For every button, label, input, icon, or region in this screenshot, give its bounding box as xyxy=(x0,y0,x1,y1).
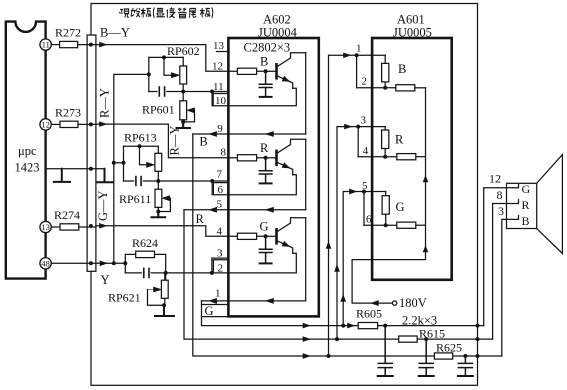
svg-text:JU0005: JU0005 xyxy=(393,26,432,40)
node Y riser at Y row xyxy=(112,261,116,265)
arrow line B xyxy=(303,337,310,342)
CRT R cathode wire xyxy=(493,200,519,339)
svg-text:2: 2 xyxy=(218,262,224,274)
svg-text:13: 13 xyxy=(41,223,49,232)
node A601 pin1 xyxy=(355,53,359,57)
svg-text:C2802×3: C2802×3 xyxy=(244,41,291,55)
wire junction to A602 pin7 xyxy=(158,180,228,182)
Q1 emitter drop and wrap to pin10 xyxy=(228,88,296,106)
svg-text:1: 1 xyxy=(215,288,221,300)
wire pin48 to bus Y row xyxy=(51,262,96,264)
wire R625 to CRT B wire xyxy=(453,355,502,357)
node G cell res bottom xyxy=(384,223,388,227)
wire R h-res to rail xyxy=(416,156,426,158)
pin 6 label box xyxy=(213,183,228,197)
riser line A to A601 pin5 xyxy=(343,192,386,326)
R624 loop left vertical xyxy=(124,254,126,273)
node bus Y xyxy=(89,261,93,265)
wire G h-res to rail xyxy=(416,224,426,226)
svg-text:3: 3 xyxy=(361,115,367,127)
svg-text:3: 3 xyxy=(217,248,223,260)
wire R605 to CRT G wire xyxy=(378,325,484,327)
wire pin13 to R274 xyxy=(51,226,60,228)
arrow pin1 wire xyxy=(209,298,216,303)
arrow pin3 wire A601 xyxy=(345,124,352,129)
svg-text:R273: R273 xyxy=(55,106,81,120)
pin6 drop and stub xyxy=(212,181,228,195)
capacitor Q1 base xyxy=(259,71,272,96)
RP601 wiper arrow xyxy=(187,108,195,113)
node RP621 bottom junction xyxy=(162,303,166,307)
potentiometer RP621 body xyxy=(161,273,168,306)
edge connector bus bar xyxy=(87,35,96,271)
RP601 stem top xyxy=(182,92,184,101)
180V rail inside A601 xyxy=(352,88,425,303)
A601 pin 2 drop xyxy=(356,55,358,88)
node cap1 xyxy=(383,324,387,328)
hybrid IC A601 box xyxy=(372,38,452,280)
capacitor C (R624 parallel) plates xyxy=(144,268,149,277)
resistor R615 xyxy=(399,336,418,342)
RP613 wiper arrow xyxy=(147,162,155,167)
capacitor Q3 base xyxy=(259,236,272,263)
RP611 stem top xyxy=(157,181,159,189)
svg-text:G—Y: G—Y xyxy=(96,190,110,221)
node RP611 bottom junction xyxy=(156,210,160,214)
node bus gnd xyxy=(89,167,93,171)
arrow pin5 wire A601 xyxy=(350,189,357,194)
RP601 wiper arm xyxy=(183,110,194,122)
capacitor Q2 base xyxy=(259,158,272,183)
svg-text:R615: R615 xyxy=(419,327,445,341)
potentiometer RP613 body xyxy=(155,146,162,181)
capacitor line B xyxy=(419,339,433,375)
pin 48 circle xyxy=(40,258,51,269)
arrow up riser pin3 xyxy=(335,265,340,271)
node R624 net output xyxy=(164,271,168,275)
RP601 bottom stem xyxy=(182,120,184,123)
pin10 drop and stub xyxy=(212,92,228,106)
svg-text:R274: R274 xyxy=(54,208,80,222)
svg-text:μpc: μpc xyxy=(18,144,37,158)
node A601 pin3 xyxy=(356,125,360,129)
RP602 top wire xyxy=(149,56,183,58)
arrow line C xyxy=(303,354,310,359)
svg-text:Y: Y xyxy=(101,273,110,287)
A601 pin4 row xyxy=(358,156,397,158)
transistor Q2 (R) base resistor xyxy=(228,155,265,161)
RP602 wiper arm xyxy=(164,57,171,75)
node Y riser to RP613 stub xyxy=(112,161,116,165)
CRT socket box xyxy=(507,183,537,228)
wire Y row to R624 net xyxy=(96,262,125,264)
CRT B cathode wire xyxy=(502,216,519,356)
svg-text:1: 1 xyxy=(356,43,362,55)
svg-text:G: G xyxy=(260,220,269,234)
A601 pin6 row xyxy=(364,224,397,226)
A601 B cell v-resistor xyxy=(382,55,389,88)
arrow pin5 wire xyxy=(209,207,216,212)
resistor R605 xyxy=(358,323,377,329)
CRT funnel xyxy=(537,155,563,254)
arrow R-Y row xyxy=(100,122,107,127)
Q3 collector drop to pin1 row xyxy=(305,218,307,301)
svg-text:RP602: RP602 xyxy=(167,44,200,58)
ground cap1 xyxy=(378,375,393,377)
RP621 wiper arrow xyxy=(148,287,162,292)
node riser/line B xyxy=(335,337,339,341)
board title 视放板(显像管尾板) (CJK approximated strokes) xyxy=(119,8,213,19)
node riser/line C xyxy=(327,354,331,358)
wire B h-res to rail xyxy=(415,87,426,89)
node RP602/RP601 junction xyxy=(181,90,185,94)
node cap3 xyxy=(463,354,467,358)
pin 5 output wire xyxy=(184,209,228,211)
arrow pin9 wire xyxy=(209,132,216,137)
svg-text:8: 8 xyxy=(497,188,503,202)
svg-text:8: 8 xyxy=(221,147,227,159)
IC ground line to bus xyxy=(46,168,105,170)
pin 1 output wire xyxy=(202,300,229,302)
pin 9 output wire xyxy=(193,133,229,135)
ground Q3 cap xyxy=(260,262,272,264)
ground Q1 cap xyxy=(260,96,272,98)
svg-text:6: 6 xyxy=(218,184,224,196)
RP602 net left vertical + node xyxy=(148,57,150,91)
resistor R274 xyxy=(60,224,79,230)
ground RP601 xyxy=(177,123,191,128)
arrow up rail 2 xyxy=(423,246,428,252)
board outline 视放板 xyxy=(91,4,478,386)
resistor R624 xyxy=(136,251,155,257)
svg-text:12: 12 xyxy=(212,61,223,73)
node line A border xyxy=(476,324,480,328)
svg-text:180V: 180V xyxy=(399,296,427,310)
svg-text:4: 4 xyxy=(363,145,369,157)
ground (left of bus) xyxy=(54,169,70,182)
transistor Q1 (B) base resistor xyxy=(228,68,265,74)
svg-text:B: B xyxy=(398,62,406,76)
ground RP611 xyxy=(152,213,166,218)
wire R272 to bus xyxy=(78,44,96,46)
node Y row to R624 xyxy=(123,261,127,265)
ch3 output riser (G drive) xyxy=(202,301,359,326)
ground RP621 xyxy=(155,305,174,316)
RP611 wiper arrow xyxy=(162,196,170,201)
pin 10 label box xyxy=(213,94,228,108)
CRT G cathode wire xyxy=(484,184,519,325)
node RP613 wiper tie xyxy=(138,144,142,148)
svg-text:A602: A602 xyxy=(263,13,291,27)
R624 top branch xyxy=(125,253,165,255)
RP602 bottom wire with capacitor xyxy=(149,91,183,93)
IC U1 μpc1423 outline xyxy=(6,22,46,279)
transistor Q1 (B) xyxy=(266,53,306,89)
svg-text:R: R xyxy=(395,133,404,147)
svg-text:1423: 1423 xyxy=(15,161,40,175)
svg-text:7: 7 xyxy=(217,169,223,181)
arrow B-Y row xyxy=(100,42,107,47)
node RP602 wiper tie xyxy=(162,55,166,59)
node line B border xyxy=(476,337,480,341)
svg-text:R272: R272 xyxy=(55,26,81,40)
RP611 wiper arm xyxy=(158,198,170,211)
pin 13 circle xyxy=(40,221,51,232)
resistor R273 xyxy=(60,121,78,127)
svg-text:4: 4 xyxy=(217,226,223,238)
arrow pin9 inside xyxy=(266,132,274,137)
label G box (pin1 output) xyxy=(202,304,229,318)
node bus B-Y xyxy=(89,43,93,47)
pin 2 label box xyxy=(213,260,228,275)
svg-text:6: 6 xyxy=(366,214,372,226)
svg-text:RP611: RP611 xyxy=(119,192,151,206)
ground cap2 xyxy=(419,375,434,377)
arrow G-Y row xyxy=(100,223,107,228)
wire R273 to bus xyxy=(78,123,96,125)
svg-text:RP613: RP613 xyxy=(124,131,157,145)
potentiometer RP611 body xyxy=(155,189,162,207)
wire riser stub to RP613 xyxy=(114,162,124,164)
svg-text:G: G xyxy=(205,304,214,318)
Y riser (x=113.8) xyxy=(114,74,149,263)
node bus R-Y xyxy=(89,122,93,126)
riser line B to A601 pin3 xyxy=(337,127,385,340)
wire R274 to bus xyxy=(79,226,96,228)
wire junction to A602 pin11 xyxy=(183,91,228,93)
ground Q2 cap xyxy=(260,182,272,184)
wire R624 net to A602 pin2 row xyxy=(166,272,229,274)
RP602 wiper arrow xyxy=(171,73,179,78)
A601 B cell h-resistor xyxy=(396,85,415,91)
capacitor C (RP613 series) plates xyxy=(136,177,141,186)
RP621 wiper arm xyxy=(148,290,164,306)
wire R-Y row to pin8 drop xyxy=(96,124,229,158)
RP613 top wire xyxy=(124,145,159,147)
pin 5 row inside xyxy=(228,209,305,211)
A601 pin2 row xyxy=(357,87,396,89)
svg-text:2: 2 xyxy=(362,76,368,88)
terminal 180V xyxy=(392,301,396,305)
RP613 net left vertical xyxy=(123,146,125,181)
node A601 pin5 xyxy=(362,190,366,194)
arrow pin1 wire A601 xyxy=(344,53,351,58)
svg-text:9: 9 xyxy=(217,123,223,135)
svg-text:RP621: RP621 xyxy=(108,291,141,305)
svg-text:A601: A601 xyxy=(397,13,425,27)
wire pin11 to R272 xyxy=(51,44,59,46)
svg-text:B: B xyxy=(522,214,530,228)
RP613 bottom wire with capacitor xyxy=(124,180,159,182)
svg-text:10: 10 xyxy=(215,95,227,107)
node RP613/RP611 junction xyxy=(156,179,160,183)
A601 pin 4 drop xyxy=(357,127,359,157)
arrow up riser pin5 xyxy=(341,295,346,301)
node cap2 xyxy=(424,337,428,341)
svg-text:R624: R624 xyxy=(132,236,158,250)
node Q3 base xyxy=(264,234,268,238)
svg-text:11: 11 xyxy=(213,81,224,93)
node pin3/pin2 tie xyxy=(210,271,214,275)
resistor R272 xyxy=(60,41,78,47)
transistor Q2 (R) xyxy=(266,139,306,175)
wire R615 to CRT R wire xyxy=(417,338,492,340)
node R cell res bottom xyxy=(383,155,387,159)
A601 G cell v-resistor xyxy=(382,192,389,226)
svg-text:B: B xyxy=(260,55,268,69)
A601 R cell v-resistor xyxy=(382,127,389,157)
ground (right of bus) xyxy=(97,169,113,183)
R624 loop right vertical xyxy=(165,254,167,280)
arrow pin5 inside xyxy=(266,207,274,212)
svg-text:JU0004: JU0004 xyxy=(258,26,298,40)
pin 13 stub xyxy=(217,51,229,53)
hybrid IC A602 box xyxy=(228,38,318,316)
transistor Q3 (G) xyxy=(266,218,306,254)
node RP601 bottom junction xyxy=(181,120,185,124)
potentiometer RP601 body xyxy=(180,101,187,120)
svg-text:5: 5 xyxy=(217,199,223,211)
svg-text:B—Y: B—Y xyxy=(100,26,130,40)
svg-text:R: R xyxy=(522,198,530,212)
svg-text:13: 13 xyxy=(213,40,225,52)
svg-text:3: 3 xyxy=(498,204,504,218)
pin 9 row inside xyxy=(228,133,305,135)
node line C border xyxy=(476,354,480,358)
pin 1 row inside xyxy=(228,300,305,302)
RP611 bottom stem xyxy=(157,207,159,212)
svg-text:12: 12 xyxy=(41,121,49,130)
svg-text:G: G xyxy=(396,200,405,214)
svg-text:48: 48 xyxy=(41,259,49,268)
svg-text:G: G xyxy=(522,182,531,196)
node Q2 base xyxy=(264,156,268,160)
svg-text:R605: R605 xyxy=(356,307,382,321)
capacitor line A xyxy=(378,326,392,376)
wire B-Y row to A602 pin12 drop xyxy=(96,45,229,72)
ground cap3 xyxy=(458,375,473,377)
riser line C to A601 pin1 xyxy=(329,55,386,356)
svg-text:R—Y: R—Y xyxy=(168,126,182,156)
ch1 output riser (B drive) xyxy=(193,134,435,356)
A601 G cell h-resistor xyxy=(397,222,416,228)
R624 bottom branch with capacitor xyxy=(125,272,165,274)
svg-text:RP601: RP601 xyxy=(142,103,175,117)
potentiometer RP602 body xyxy=(180,57,187,91)
node bus G-Y xyxy=(89,224,93,228)
Q1 collector drop to pin9 row xyxy=(305,53,307,134)
wire pin12 to R273 xyxy=(51,123,60,125)
svg-text:2.2k×3: 2.2k×3 xyxy=(402,314,437,328)
RP613 wiper arm xyxy=(140,146,147,165)
pin3 rise and stub xyxy=(212,258,229,273)
pin 11 circle xyxy=(40,39,51,50)
svg-text:R: R xyxy=(196,212,205,226)
arrow up rail 1 xyxy=(423,176,428,182)
Q2 emitter drop and wrap to pin6 xyxy=(228,175,296,195)
arrow line A after node xyxy=(348,323,355,328)
arrow Y row xyxy=(100,261,107,266)
node B cell res bottom xyxy=(383,86,387,90)
transistor Q3 (G) base resistor xyxy=(228,233,265,239)
ch2 output riser (R drive) xyxy=(184,210,398,339)
pin 12 circle xyxy=(40,119,51,130)
arrow pin1 inside xyxy=(266,298,274,303)
svg-text:R: R xyxy=(260,141,269,155)
node Q1 base xyxy=(264,69,268,73)
node pin7/pin6 tie xyxy=(210,179,214,183)
resistor R625 xyxy=(434,353,452,359)
Q2 collector drop to pin5 row xyxy=(305,139,307,210)
arrow line A xyxy=(303,323,310,328)
node RP613 stub join xyxy=(122,161,126,165)
node pin11/pin10 tie xyxy=(210,90,214,94)
A601 pin 6 drop xyxy=(363,192,365,226)
node riser/line A xyxy=(341,324,345,328)
svg-text:R—Y: R—Y xyxy=(98,88,112,118)
arrow 180V feed xyxy=(371,301,378,306)
wire G-Y row to A602 pin4 drop xyxy=(96,226,229,237)
capacitor line C xyxy=(458,356,472,375)
svg-text:12: 12 xyxy=(489,172,501,186)
capacitor C (RP602 series) plates xyxy=(159,87,164,96)
A601 R cell h-resistor xyxy=(397,154,416,160)
arrow up riser pin1 xyxy=(326,242,331,248)
Q3 emitter drop and wrap to pin2 xyxy=(228,253,296,273)
svg-text:B: B xyxy=(199,135,207,149)
svg-text:11: 11 xyxy=(42,41,50,50)
